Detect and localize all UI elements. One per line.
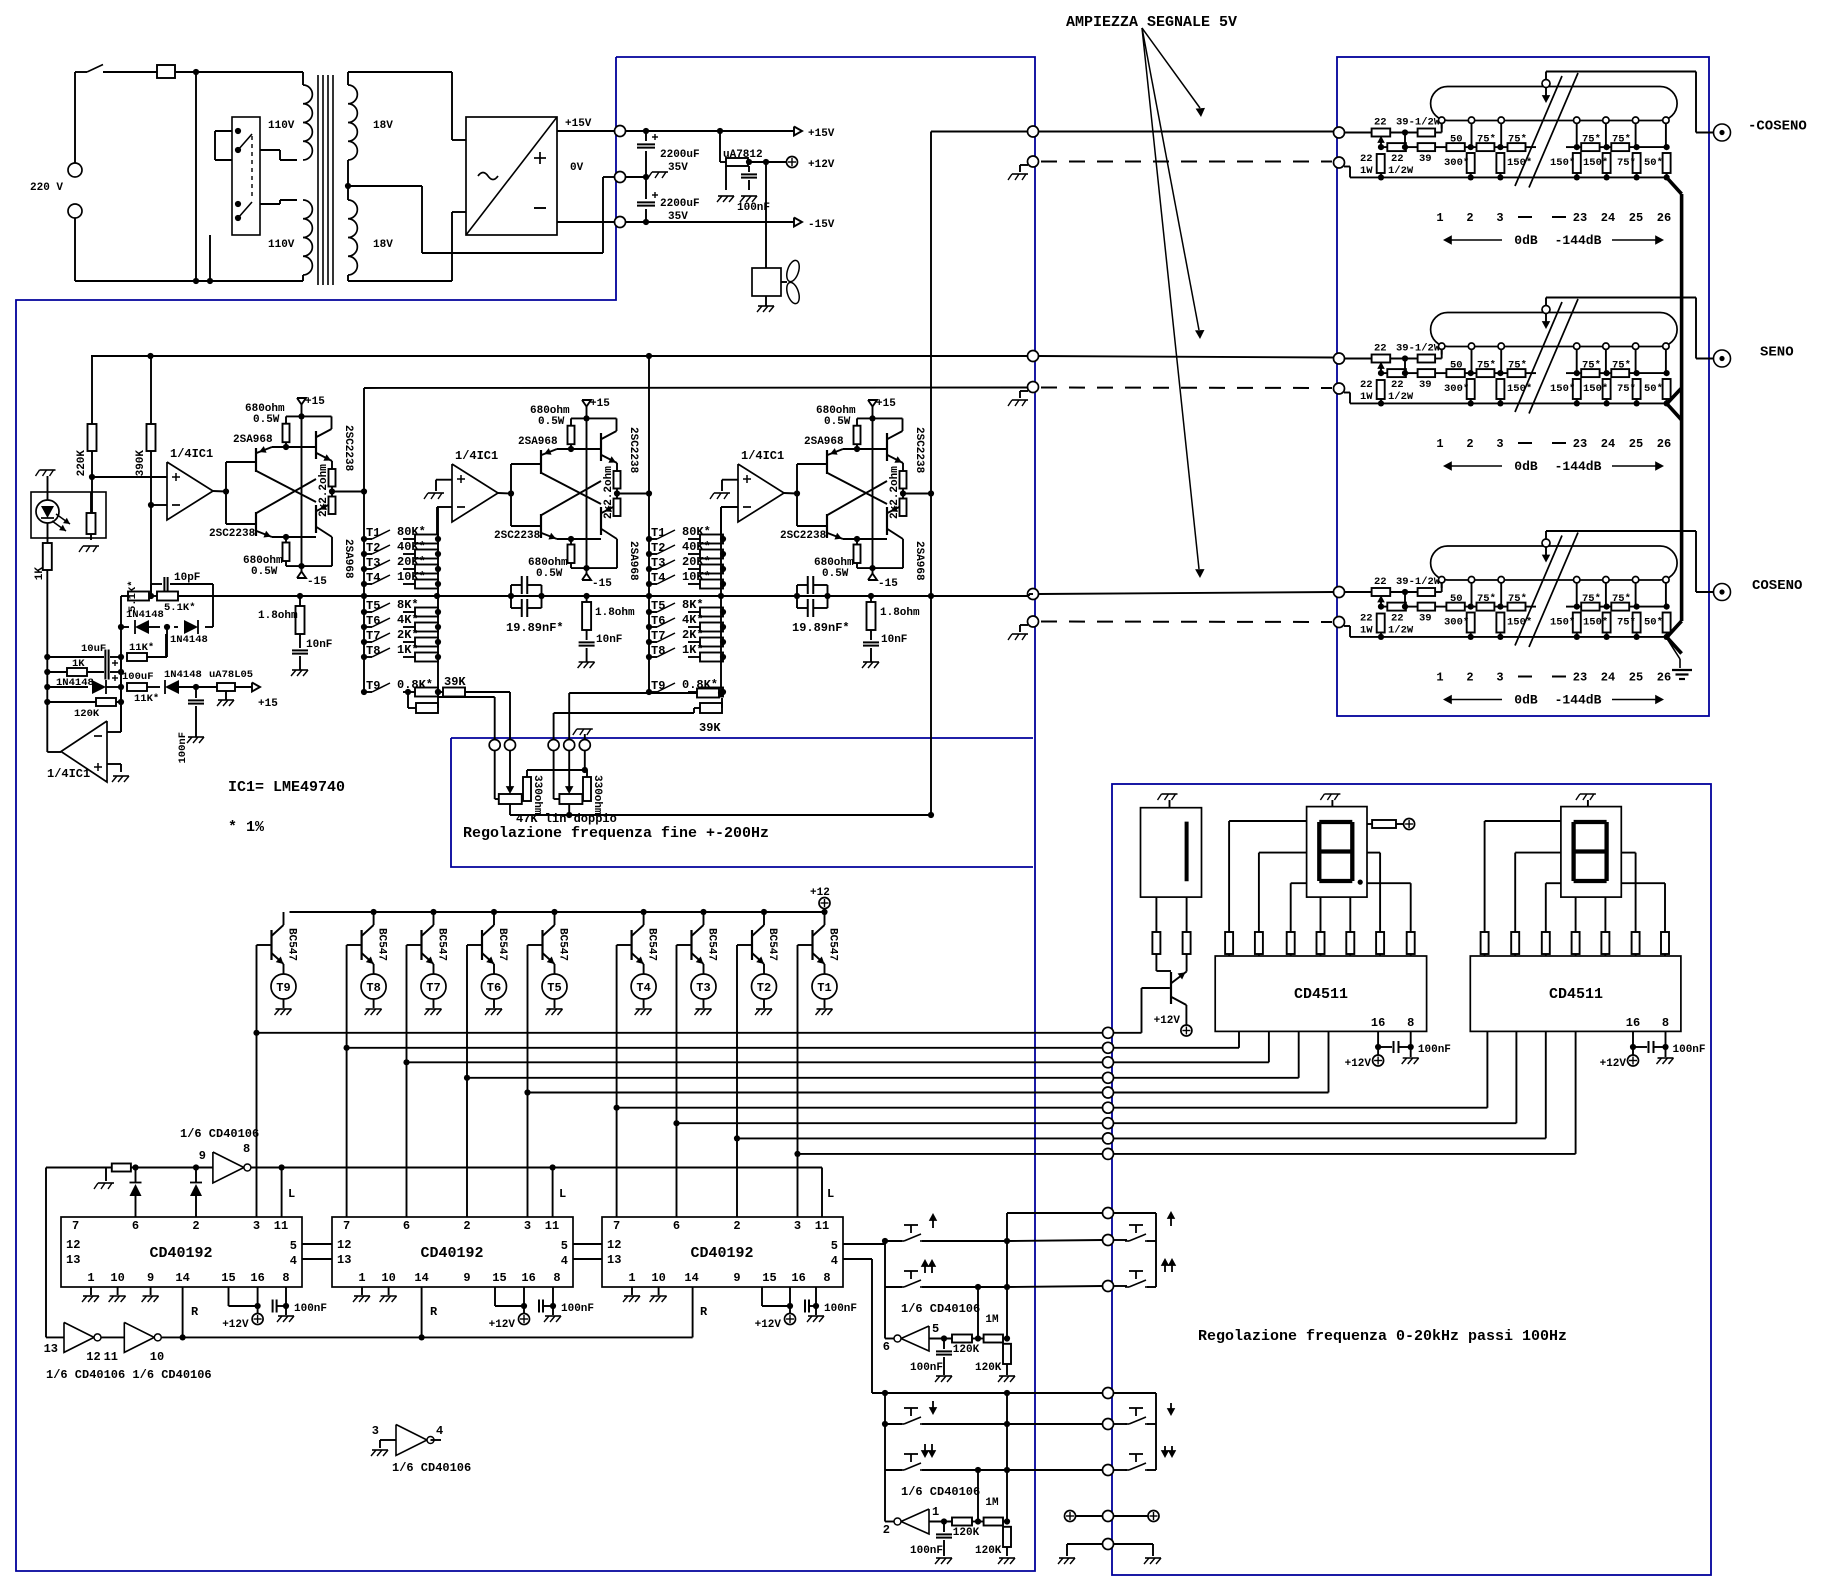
svg-text:150*: 150* [1507, 617, 1532, 629]
svg-text:10pF: 10pF [174, 572, 200, 584]
terminal bus line 4 (display box) [1103, 1072, 1114, 1083]
svg-text:18V: 18V [373, 239, 393, 251]
transistor BC547 (T7 driver) [407, 912, 448, 974]
wire buttons to terminals (up) [1007, 1213, 1103, 1287]
ground uA7812 [718, 195, 734, 197]
svg-text:300*: 300* [1444, 383, 1469, 395]
svg-text:100nF: 100nF [1418, 1044, 1451, 1056]
svg-text:100nF: 100nF [910, 1362, 943, 1374]
wire fuse to transformer [175, 69, 303, 75]
svg-text:BC547: BC547 [557, 928, 569, 961]
svg-text:2SA968: 2SA968 [913, 541, 925, 581]
wire driver base bus line 6 [614, 1105, 1103, 1111]
capacitor 19.89nF* (amp2) [506, 576, 564, 635]
wire +15V rail [557, 118, 794, 134]
svg-text:T4: T4 [651, 571, 665, 585]
wire main vertical x=931 [930, 132, 932, 816]
svg-text:2SA968: 2SA968 [233, 434, 273, 446]
svg-text:18V: 18V [373, 120, 393, 132]
attenuator block 1 (-COSENO) [1431, 73, 1678, 188]
svg-text:+12V: +12V [1600, 1058, 1627, 1070]
capacitor 10nF (amp3) [863, 630, 907, 662]
inverter 1/6 CD40106 (reset a) [44, 1322, 101, 1364]
svg-text:T1: T1 [817, 981, 831, 995]
ground above LED [40, 469, 56, 471]
wire chip1 pin11 to clock [282, 1168, 296, 1218]
svg-text:75*: 75* [1477, 134, 1496, 146]
svg-text:BC547: BC547 [376, 928, 388, 961]
svg-text:150*: 150* [1550, 617, 1575, 629]
ground CD40192#1 [142, 1287, 159, 1302]
svg-text:1N4148: 1N4148 [170, 634, 208, 646]
svg-text:19.89nF*: 19.89nF* [792, 621, 850, 635]
svg-text:19.89nF*: 19.89nF* [506, 621, 564, 635]
ground vactrol [83, 545, 99, 547]
svg-text:150*: 150* [1583, 617, 1608, 629]
ground CD40192#1 [109, 1287, 126, 1302]
indicator circle T5 [542, 974, 567, 1008]
display digit 1 (units of 10k) [1141, 800, 1202, 897]
counter IC CD40192 #1 [61, 1217, 302, 1287]
svg-text:16: 16 [250, 1271, 264, 1285]
svg-text:13: 13 [44, 1342, 58, 1356]
svg-text:T5: T5 [547, 981, 561, 995]
RC up repeat [910, 1284, 1011, 1375]
resistor + supply display1 dp [1367, 819, 1415, 830]
ground amp2 + input [424, 480, 452, 499]
terminal bus line 5 (display box) [1103, 1087, 1114, 1098]
svg-text:14: 14 [175, 1271, 189, 1285]
svg-text:150*: 150* [1507, 157, 1532, 169]
ground CD40192#3 [623, 1287, 640, 1302]
diode 1N4148 (AGC) [47, 677, 121, 694]
svg-text:+15: +15 [305, 396, 325, 408]
svg-text:9: 9 [199, 1149, 206, 1163]
svg-text:7: 7 [72, 1219, 79, 1233]
svg-text:25: 25 [1629, 437, 1643, 451]
push button down x1 [900, 1408, 1010, 1427]
capacitor 10nF (amp1) [292, 634, 332, 670]
wire carry chip2-chip3 [573, 1244, 602, 1259]
wire base vertical T7 [406, 945, 408, 1217]
wire SENO feed [1039, 356, 1334, 358]
svg-text:35V: 35V [668, 211, 688, 223]
wire buttons left bus (up) [885, 1241, 902, 1287]
svg-text:1/4IC1: 1/4IC1 [170, 447, 213, 461]
ground amp3 + input [710, 480, 738, 499]
ground 100nF [741, 195, 757, 197]
svg-text:CD40192: CD40192 [420, 1245, 483, 1262]
wire 220K to + input [89, 451, 167, 513]
arrow up (panel) [1167, 1211, 1175, 1226]
svg-text:CD4511: CD4511 [1549, 986, 1603, 1003]
svg-text:T4: T4 [636, 981, 650, 995]
svg-text:8: 8 [553, 1271, 560, 1285]
power group CD4511 #2 [1600, 1031, 1706, 1070]
wire reset line R [162, 1287, 708, 1341]
svg-text:1/4IC1: 1/4IC1 [741, 449, 784, 463]
fine frequency adjust box border (blue) [451, 738, 1033, 867]
transistor BC547 (T6 driver) [467, 912, 508, 974]
ground 100nF #3 [808, 1315, 824, 1317]
wire driver base bus line 2 [344, 1045, 1103, 1051]
svg-text:0.5W: 0.5W [251, 566, 278, 578]
resistor 120K [47, 698, 121, 720]
svg-text:11K*: 11K* [129, 642, 154, 654]
svg-text:5: 5 [561, 1239, 568, 1253]
svg-text:CD40192: CD40192 [690, 1245, 753, 1262]
wire bus2 to CD4511#1 [1114, 1031, 1240, 1047]
svg-text:1K: 1K [72, 658, 85, 670]
svg-text:330ohm: 330ohm [531, 775, 543, 815]
resistor 39K (ladder2) [569, 689, 724, 736]
svg-text:+12V: +12V [1345, 1058, 1372, 1070]
svg-text:16: 16 [1371, 1016, 1385, 1030]
wire base vertical T8 [346, 945, 348, 1217]
svg-text:CD40192: CD40192 [149, 1245, 212, 1262]
svg-text:R: R [430, 1305, 438, 1319]
wire base vertical T5 [527, 945, 529, 1217]
capacitor 19.89nF* (amp3) [792, 576, 850, 635]
wire node fuse-down [195, 72, 197, 281]
ground AGC + input [113, 775, 129, 777]
svg-text:1/6 CD40106: 1/6 CD40106 [180, 1127, 259, 1141]
svg-text:1W: 1W [1360, 625, 1373, 637]
svg-text:+15V: +15V [565, 118, 592, 130]
svg-text:3: 3 [1496, 437, 1503, 451]
svg-text:14: 14 [414, 1271, 428, 1285]
svg-text:24: 24 [1601, 211, 1615, 225]
chassis ground shield 1 [1008, 165, 1028, 180]
attenuator block 3 (COSENO) [1431, 533, 1678, 648]
wire panel down bracket [1114, 1393, 1157, 1470]
indicator circle T6 [482, 974, 507, 1008]
transformer core [318, 75, 333, 285]
amp3 output stage (2SA968/2SC2238) [868, 398, 896, 574]
wire driver base bus line 8 [734, 1135, 1103, 1141]
svg-text:75*: 75* [1612, 360, 1631, 372]
wire -15V rail [557, 219, 794, 225]
display 7-segment #1 [1307, 800, 1367, 897]
svg-text:2SC2238: 2SC2238 [342, 425, 354, 472]
wire ladder2 out to amp3 - [721, 507, 738, 536]
capacitor 10pF [151, 572, 213, 596]
svg-text:11: 11 [815, 1219, 829, 1233]
svg-text:0.5W: 0.5W [824, 416, 851, 428]
svg-text:IC1= LME49740: IC1= LME49740 [228, 779, 345, 796]
wire driver base bus line 7 [673, 1120, 1102, 1126]
svg-text:2SA968: 2SA968 [804, 436, 844, 448]
push button down x10 [900, 1454, 1010, 1473]
svg-text:T9: T9 [651, 679, 665, 693]
power group CD4511 #1 [1345, 1031, 1451, 1070]
svg-text:BC547: BC547 [766, 928, 778, 961]
svg-text:22: 22 [1374, 576, 1387, 588]
inverter 1/6 CD40106 (unused) [372, 1424, 471, 1475]
svg-text:1: 1 [1436, 211, 1443, 225]
transistor BC547 digit-1 driver [1154, 972, 1187, 1028]
svg-text:-COSENO: -COSENO [1748, 119, 1807, 135]
ground 10nF amp2 [579, 661, 595, 663]
ground feed left [1059, 1557, 1075, 1559]
ground feed right [1145, 1557, 1161, 1559]
chassis ground clock RC [94, 1168, 114, 1190]
svg-text:39K: 39K [699, 721, 721, 735]
diode 1N4148 (right) [170, 620, 208, 646]
ground RC down (res) [999, 1557, 1015, 1559]
wire buttons to terminals (down) [1004, 1390, 1103, 1470]
wire buttons left bus (down) [882, 1393, 902, 1470]
svg-text:22: 22 [1391, 613, 1404, 625]
resistor 5.1K* (a) [127, 580, 149, 612]
svg-text:1.8ohm: 1.8ohm [258, 610, 298, 622]
svg-text:75*: 75* [1617, 157, 1636, 169]
transformer T1 primary winding 1 (110V) [268, 72, 312, 160]
svg-text:150*: 150* [1550, 157, 1575, 169]
ground T3 [696, 1008, 712, 1010]
svg-text:3: 3 [253, 1219, 260, 1233]
svg-text:300*: 300* [1444, 617, 1469, 629]
ground T2 [756, 1008, 772, 1010]
svg-text:T3: T3 [696, 981, 710, 995]
indicator circle T7 [421, 974, 446, 1008]
callout arrow to COSENO line [1142, 28, 1205, 578]
resistor 220K [76, 356, 97, 476]
svg-text:6: 6 [403, 1219, 410, 1233]
svg-text:+15: +15 [876, 398, 896, 410]
resistor 390K [135, 356, 156, 476]
terminal up row 1 [1103, 1208, 1114, 1219]
transformer T1 primary winding 2 (110V) [268, 200, 312, 281]
svg-text:AMPIEZZA SEGNALE 5V: AMPIEZZA SEGNALE 5V [1066, 14, 1237, 31]
svg-text:100uF: 100uF [122, 671, 154, 683]
capacitor 10uF [47, 643, 121, 666]
arrow +15 78L05 [252, 683, 278, 711]
svg-text:-15V: -15V [808, 219, 835, 231]
terminal pot2 wiper [564, 740, 575, 751]
wire 0V node [626, 174, 649, 180]
wire opamp3 out to stage [784, 492, 797, 495]
wire amp3 out to main vertical [903, 490, 934, 496]
svg-text:75*: 75* [1508, 134, 1527, 146]
dashed shield line 3 [1041, 621, 1332, 624]
regulator U2 uA7812 [720, 131, 787, 190]
wire diode feedback row [118, 596, 213, 732]
diode 1N4148 (to 78L05) [164, 669, 202, 694]
terminal COSENO feed (border) [1028, 589, 1039, 600]
terminal +12V [787, 157, 835, 172]
svg-text:BC547: BC547 [436, 928, 448, 961]
svg-text:10nF: 10nF [306, 639, 332, 651]
svg-text:CD4511: CD4511 [1294, 986, 1348, 1003]
svg-text:25: 25 [1629, 671, 1643, 685]
svg-text:100nF: 100nF [561, 1303, 594, 1315]
arrow up (left) [929, 1213, 937, 1228]
svg-text:+12V: +12V [222, 1319, 249, 1331]
resistor 11K* (lower) [127, 683, 160, 705]
arrow downdown (panel) [1161, 1446, 1176, 1458]
svg-text:100nF: 100nF [910, 1545, 943, 1557]
svg-text:1N4148: 1N4148 [126, 609, 164, 621]
resistor 1K (LED) [34, 523, 52, 657]
wire driver base bus line 9 [794, 1151, 1102, 1157]
svg-text:75*: 75* [1477, 360, 1496, 372]
svg-text:120K: 120K [74, 708, 100, 720]
ladder 1 right bus [437, 507, 439, 697]
wire carry chip1-chip2 [302, 1244, 332, 1259]
svg-text:9: 9 [463, 1271, 470, 1285]
svg-text:13: 13 [337, 1253, 351, 1267]
svg-text:+12V: +12V [755, 1319, 782, 1331]
wire 330ohm common to ground terminal [527, 751, 588, 774]
svg-text:0dB: 0dB [1514, 233, 1538, 248]
svg-text:13: 13 [607, 1253, 621, 1267]
svg-text:-15: -15 [878, 578, 898, 590]
transformer T1 secondary winding 2 (18V) [348, 200, 393, 275]
svg-text:T9: T9 [276, 981, 290, 995]
svg-text:L: L [288, 1187, 295, 1201]
svg-text:22: 22 [1391, 379, 1404, 391]
svg-text:75*: 75* [1617, 383, 1636, 395]
svg-text:100nF: 100nF [177, 732, 189, 764]
svg-text:11: 11 [104, 1350, 118, 1364]
terminal bus line 7 (display box) [1103, 1118, 1114, 1129]
ground T4 [636, 1008, 652, 1010]
wire AGC opamp + input [107, 764, 121, 772]
svg-text:BC547: BC547 [286, 928, 298, 961]
ground CD40192#3 [650, 1287, 667, 1302]
svg-text:4: 4 [831, 1254, 838, 1268]
svg-text:110V: 110V [268, 239, 295, 251]
svg-text:3: 3 [1496, 211, 1503, 225]
op-amp U1C 1/4IC1 [738, 449, 784, 522]
vactrol photoresistor [87, 492, 96, 540]
svg-text:0.5W: 0.5W [538, 416, 565, 428]
resistor 39K (ladder1) [435, 675, 510, 697]
svg-text:12: 12 [86, 1350, 100, 1364]
arrow downdown (left) [921, 1444, 936, 1458]
svg-text:220K: 220K [76, 450, 88, 477]
svg-text:24: 24 [1601, 437, 1615, 451]
svg-text:2SC2238: 2SC2238 [780, 530, 827, 542]
svg-text:+12V: +12V [1154, 1015, 1181, 1027]
svg-text:1N4148: 1N4148 [164, 669, 202, 681]
svg-text:10uF: 10uF [81, 643, 106, 655]
terminal bus line 2 (display box) [1103, 1042, 1114, 1053]
capacitor 100uF [105, 665, 153, 684]
terminal row +12 feed [1065, 1511, 1160, 1522]
ground T9 [276, 1008, 292, 1010]
wire bus8 to CD4511#2 [1114, 1031, 1546, 1138]
svg-text:3: 3 [794, 1219, 801, 1233]
resistor 11K* (upper) [127, 634, 166, 661]
svg-text:100nF: 100nF [294, 1303, 327, 1315]
ground 10nF amp1 [292, 669, 308, 671]
terminal shield 3 (border) [1028, 616, 1039, 627]
svg-text:T8: T8 [651, 644, 665, 658]
analog+digital section border (blue) [16, 57, 1035, 1571]
inverter 1/6 CD40106 (up repeat) [883, 1287, 980, 1354]
svg-text:0dB: 0dB [1514, 693, 1538, 708]
push button up x10 (panel) [1114, 1271, 1150, 1287]
svg-text:+15: +15 [590, 398, 610, 410]
terminal bus line 1 (display box) [1103, 1027, 1114, 1038]
chassis ground shield 3 [1008, 625, 1028, 640]
terminal shield 1 (border) [1028, 156, 1039, 167]
ladder 2 switches T1-T9 with weights [646, 525, 726, 544]
svg-text:150*: 150* [1507, 383, 1532, 395]
svg-text:39-1/2W: 39-1/2W [1396, 343, 1441, 355]
wire bus1 to digit-1 transistor [1114, 988, 1170, 1033]
svg-text:8: 8 [1662, 1016, 1669, 1030]
ground T6 [486, 1008, 502, 1010]
svg-text:1: 1 [932, 1505, 939, 1519]
svg-text:1M: 1M [985, 1314, 999, 1326]
svg-text:75*: 75* [1612, 134, 1631, 146]
svg-text:0V: 0V [570, 162, 584, 174]
svg-text:1/6 CD40106: 1/6 CD40106 [901, 1302, 980, 1316]
svg-text:9: 9 [733, 1271, 740, 1285]
svg-text:39-1/2W: 39-1/2W [1396, 576, 1441, 588]
ladder 2 bottom resistor [694, 698, 722, 713]
wire AGC left bus [44, 654, 50, 752]
svg-text:8: 8 [1407, 1016, 1414, 1030]
svg-text:BC547: BC547 [496, 928, 508, 961]
svg-text:24: 24 [1601, 671, 1615, 685]
transformer T1 secondary winding 1 (18V) [348, 85, 393, 160]
svg-text:35V: 35V [668, 162, 688, 174]
wire bus6 to CD4511#2 [1114, 1031, 1488, 1107]
svg-text:13: 13 [66, 1253, 80, 1267]
fan M1 [752, 162, 802, 306]
svg-text:11K*: 11K* [134, 693, 159, 705]
svg-text:T5: T5 [651, 599, 665, 613]
svg-text:26: 26 [1657, 211, 1671, 225]
dashed shield line 2 [1041, 387, 1332, 390]
segment resistors display #2 [1481, 932, 1489, 954]
indicator circle T1 [812, 974, 837, 1008]
wire base vertical T4 [616, 945, 618, 1217]
svg-text:BC547: BC547 [706, 928, 718, 961]
ground T5 [547, 1008, 563, 1010]
svg-text:T2: T2 [366, 541, 380, 555]
svg-text:120K: 120K [953, 1527, 980, 1539]
voltage selector 110/220 [210, 117, 260, 281]
svg-text:50*: 50* [1644, 157, 1663, 169]
svg-text:12: 12 [607, 1238, 621, 1252]
capacitor C2 2200uF 35V [637, 177, 700, 223]
svg-text:2200uF: 2200uF [660, 198, 700, 210]
svg-text:-144dB: -144dB [1555, 693, 1602, 708]
dashed shield line 1 [1041, 161, 1332, 163]
svg-text:4: 4 [436, 1424, 443, 1438]
svg-text:R: R [700, 1305, 708, 1319]
svg-text:75*: 75* [1582, 593, 1601, 605]
svg-text:1/2W: 1/2W [1388, 165, 1414, 177]
svg-text:1: 1 [87, 1271, 94, 1285]
ground 78L05 [218, 699, 234, 701]
svg-text:1/6 CD40106: 1/6 CD40106 [392, 1461, 471, 1475]
svg-text:1: 1 [1436, 671, 1443, 685]
svg-text:T1: T1 [651, 526, 665, 540]
svg-text:22: 22 [1360, 379, 1373, 391]
terminal bus line 8 (display box) [1103, 1133, 1114, 1144]
wire bus7 to CD4511#2 [1114, 1031, 1517, 1123]
wire clock line [46, 1164, 822, 1170]
svg-text:T6: T6 [487, 981, 501, 995]
svg-text:3: 3 [1496, 671, 1503, 685]
svg-text:1/6 CD40106 1/6 CD40106: 1/6 CD40106 1/6 CD40106 [46, 1368, 212, 1382]
